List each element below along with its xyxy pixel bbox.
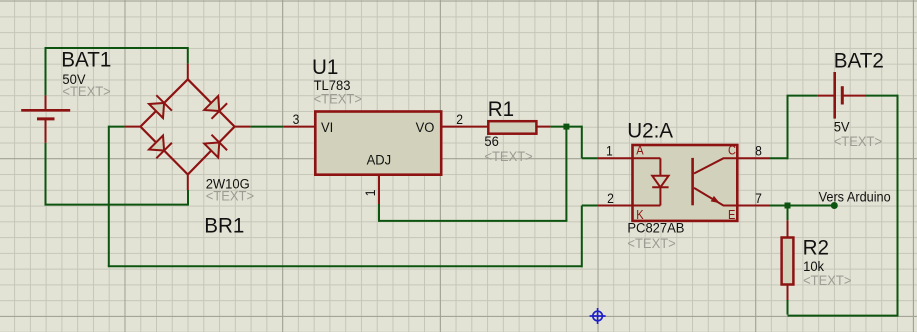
svg-text:R1: R1 <box>488 98 514 121</box>
svg-text:10k: 10k <box>803 259 824 274</box>
svg-text:<TEXT>: <TEXT> <box>834 134 883 149</box>
svg-text:C: C <box>728 143 736 158</box>
svg-text:U2:A: U2:A <box>627 119 673 142</box>
svg-text:1: 1 <box>362 189 378 196</box>
svg-text:U1: U1 <box>312 55 338 78</box>
svg-text:2: 2 <box>456 112 463 128</box>
svg-text:BR1: BR1 <box>204 214 244 237</box>
svg-text:1: 1 <box>606 143 613 159</box>
svg-text:VO: VO <box>416 120 435 135</box>
svg-text:K: K <box>636 207 643 222</box>
svg-text:A: A <box>636 143 644 158</box>
svg-text:2: 2 <box>607 190 614 206</box>
svg-text:7: 7 <box>755 190 762 206</box>
svg-text:<TEXT>: <TEXT> <box>62 84 111 99</box>
svg-text:<TEXT>: <TEXT> <box>206 188 255 203</box>
svg-text:E: E <box>728 207 735 222</box>
svg-text:3: 3 <box>293 112 300 128</box>
svg-text:BAT2: BAT2 <box>834 49 884 72</box>
svg-text:56: 56 <box>484 134 498 149</box>
svg-text:5V: 5V <box>834 119 850 134</box>
svg-text:R2: R2 <box>803 236 829 259</box>
svg-text:<TEXT>: <TEXT> <box>627 236 676 251</box>
svg-text:VI: VI <box>321 120 333 135</box>
svg-text:PC827AB: PC827AB <box>627 220 684 235</box>
svg-text:8: 8 <box>755 143 762 159</box>
svg-text:<TEXT>: <TEXT> <box>314 91 363 106</box>
svg-text:ADJ: ADJ <box>367 152 392 167</box>
svg-text:<TEXT>: <TEXT> <box>484 149 533 164</box>
svg-text:<TEXT>: <TEXT> <box>803 273 852 288</box>
svg-text:Vers Arduino: Vers Arduino <box>819 189 891 204</box>
svg-text:BAT1: BAT1 <box>61 48 111 71</box>
